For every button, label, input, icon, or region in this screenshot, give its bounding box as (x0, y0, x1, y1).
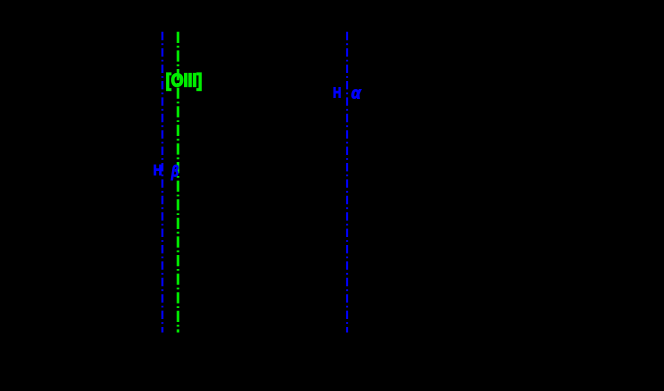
svg-text:H: H (333, 84, 341, 101)
Halpha vline (blue dash-dot) (346, 32, 348, 333)
svg-text:α: α (351, 83, 362, 102)
svg-text:β: β (171, 163, 179, 180)
svg-text:[OIII]: [OIII] (166, 71, 202, 91)
[OIII] vline (green dash-dot) (177, 32, 180, 333)
svg-text:H: H (153, 162, 162, 179)
Hbeta vline (blue dash-dot) (161, 32, 163, 333)
